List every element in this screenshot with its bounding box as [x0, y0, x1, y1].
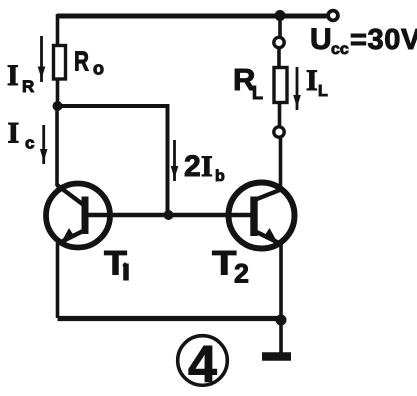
ground bar — [262, 352, 291, 361]
resistor RL — [274, 68, 287, 103]
wire node A to right corner — [58, 104, 168, 108]
current arrow Ic — [40, 125, 48, 164]
svg-text:2: 2 — [234, 259, 249, 289]
svg-text:4: 4 — [188, 336, 217, 394]
wire Ro to node A — [56, 79, 60, 106]
svg-text:U: U — [310, 23, 332, 56]
svg-text:b: b — [215, 168, 225, 185]
ground stem — [279, 320, 283, 353]
current arrow 2Ib — [171, 140, 179, 181]
node A — [53, 101, 63, 111]
node base junction — [164, 210, 174, 220]
wire emitter T1 down — [56, 243, 60, 318]
wire down to base node — [166, 104, 170, 215]
transistor T2 — [229, 183, 295, 249]
svg-text:I: I — [306, 64, 318, 97]
current arrow IR — [38, 36, 46, 82]
svg-text:2: 2 — [184, 150, 201, 183]
node bottom junction — [276, 315, 287, 326]
terminal RL top — [274, 37, 284, 47]
svg-text:R: R — [22, 77, 34, 96]
wire RL to terminal — [278, 103, 282, 128]
svg-text:I: I — [201, 150, 213, 183]
wire base bus — [88, 213, 251, 217]
wire bottom rail — [58, 316, 282, 321]
svg-text:o: o — [93, 59, 104, 79]
node top-right junction — [275, 10, 286, 21]
wire terminal to RL — [277, 49, 281, 69]
svg-text:L: L — [252, 83, 263, 103]
svg-text:R: R — [74, 46, 89, 77]
wire top rail — [57, 14, 327, 19]
resistor Ro — [54, 46, 66, 80]
svg-text:=30V: =30V — [350, 24, 417, 56]
svg-text:I: I — [8, 117, 20, 150]
svg-text:cc: cc — [331, 41, 349, 58]
svg-text:I: I — [7, 59, 19, 92]
wire terminal to T2 collector — [279, 138, 283, 191]
wire node A down to T1 collector — [55, 104, 59, 186]
wire rail junction to RL terminal — [278, 15, 282, 37]
figure number circle — [178, 336, 228, 386]
wire left drop from rail — [56, 14, 60, 46]
svg-text:c: c — [25, 134, 34, 153]
terminal Ucc — [328, 11, 338, 21]
svg-text:L: L — [318, 83, 328, 100]
terminal RL bottom — [274, 127, 284, 137]
current arrow IL — [293, 67, 301, 110]
transistor T1 — [46, 184, 110, 248]
wire emitter T2 down — [279, 243, 283, 320]
